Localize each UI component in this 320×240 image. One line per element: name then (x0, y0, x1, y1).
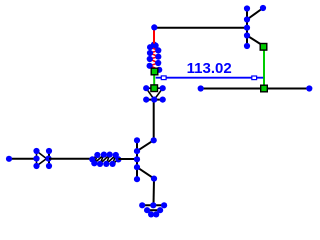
transistor Q1 (137, 140, 154, 179)
node collector junction (151, 137, 157, 143)
wire diode to inductor (49, 158, 92, 160)
wire input left (9, 158, 37, 160)
dimension line (156, 77, 264, 79)
red wire top corner to inductor L2 (153, 28, 155, 44)
inductor L2 coil (vertical, red) (150, 44, 160, 71)
diode D1 handles (33, 148, 52, 169)
green handle Q2 emitter (260, 44, 267, 51)
wire top horizontal (154, 27, 247, 29)
dimension arrowhead right (252, 76, 257, 80)
node emitter junction (151, 176, 157, 182)
node bottom right wire right end (306, 85, 312, 91)
node bottom right wire left end (198, 85, 204, 91)
wire Q1 collector up to diode D2 (153, 100, 155, 141)
node Q2 collector end (260, 5, 266, 11)
ground (141, 205, 165, 214)
green wire right vertical (263, 46, 265, 89)
green handle at inductor bottom (151, 68, 158, 75)
green wire inductor to diode D2 (153, 71, 155, 88)
dimension arrowhead left (161, 76, 166, 80)
green handle on bottom right wire (261, 85, 268, 92)
wire Q1 emitter down to ground (153, 179, 156, 205)
diode D2 (pointing down) (146, 88, 163, 99)
transistor Q2 handles (244, 5, 250, 49)
node top corner (151, 24, 157, 30)
diode D1 (37, 151, 50, 166)
diode D2 handles (143, 85, 166, 103)
svg-text:113.02: 113.02 (187, 60, 232, 77)
wire inductor to Q1 base (118, 158, 137, 160)
node input dot (6, 156, 12, 162)
transistor Q2 (247, 8, 264, 46)
inductor L2 handles (147, 42, 163, 73)
transistor Q1 handles (134, 137, 140, 182)
inductor L1 handles (89, 152, 121, 167)
wire bottom right (201, 88, 310, 90)
ground handles (139, 202, 167, 217)
green handle at diode D2 top (151, 85, 158, 92)
inductor L1 coil (92, 155, 118, 164)
